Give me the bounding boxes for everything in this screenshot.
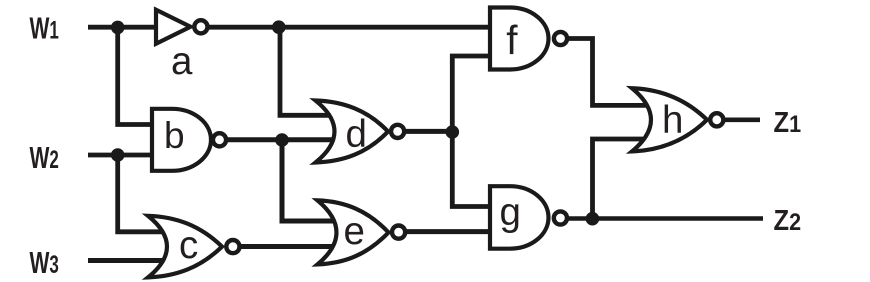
bubble of nand g <box>554 211 567 224</box>
bubble of nor c <box>226 240 239 253</box>
junction dot on g output <box>586 212 600 226</box>
nand gate f <box>490 8 549 70</box>
wire g junction up to gate h bottom input <box>593 139 649 219</box>
nor gate d <box>316 101 389 163</box>
wire c output to gate e bottom input <box>240 244 338 249</box>
wire node after a down to gate d top input <box>280 27 334 115</box>
inverter a <box>156 10 191 44</box>
nor gate c <box>148 216 222 278</box>
svg-text:d: d <box>346 113 367 156</box>
bubble of nor e <box>392 226 405 239</box>
svg-text:h: h <box>662 99 683 142</box>
wire b-output junction down to gate e top input <box>282 140 336 221</box>
junction dot after inverter a <box>272 20 286 34</box>
bubble of nor h <box>710 113 723 126</box>
svg-text:a: a <box>171 40 193 83</box>
nand gate b <box>152 109 211 171</box>
svg-text:b: b <box>164 115 185 156</box>
junction dot on W1 <box>111 21 125 35</box>
wire d junction down to gate g top input <box>452 131 494 206</box>
wire W2 input <box>88 153 158 158</box>
wire d output to junction <box>404 129 452 134</box>
svg-text:e: e <box>344 210 365 253</box>
svg-text:W3: W3 <box>30 245 59 280</box>
wire h output to Z1 <box>723 118 760 123</box>
nor gate h <box>632 88 707 151</box>
wire inverter a output to gate f top input <box>207 25 494 30</box>
wire g output to Z2 <box>567 216 764 220</box>
wire b output to gate d bottom input <box>217 137 337 142</box>
wire W2 junction down to gate c top input <box>118 155 170 232</box>
wire e output to gate g bottom input <box>406 229 494 234</box>
nand gate g <box>490 186 549 249</box>
wire W1 input <box>88 25 157 30</box>
bubble of nand b <box>213 133 226 146</box>
svg-text:g: g <box>500 191 521 234</box>
svg-text:c: c <box>179 224 198 267</box>
svg-text:W1: W1 <box>30 10 59 45</box>
nor gate e <box>318 200 389 264</box>
bubble of inverter a <box>194 20 207 33</box>
wire W1 junction down to gate b top input <box>118 27 158 124</box>
bubble of nand f <box>554 32 567 45</box>
svg-text:f: f <box>506 17 518 63</box>
junction dot on W2 <box>111 148 125 162</box>
wire d junction up to gate f bottom input <box>452 56 494 131</box>
svg-text:Z2: Z2 <box>774 203 802 236</box>
wire f output to gate h top input <box>567 39 650 106</box>
wire W3 input <box>88 258 172 263</box>
bubble of nor d <box>391 125 404 138</box>
junction dot on d output <box>446 125 460 139</box>
junction dot on b output <box>275 133 289 147</box>
svg-text:Z1: Z1 <box>774 106 802 139</box>
svg-text:W2: W2 <box>30 140 59 175</box>
